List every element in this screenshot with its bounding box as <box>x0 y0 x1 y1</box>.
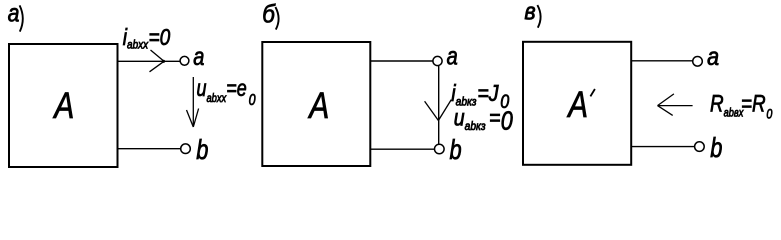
label b (terminal b, fig b) <box>450 134 462 165</box>
label А inside box A1 <box>53 85 75 127</box>
svg-text:b: b <box>196 134 208 165</box>
label i_abкз = J_0 <box>451 81 509 113</box>
label a (terminal a, fig b) <box>447 42 458 70</box>
label А inside box A2 <box>308 85 330 127</box>
svg-text:a: a <box>707 42 719 70</box>
label b (terminal b, fig c) <box>710 133 722 164</box>
svg-text:А: А <box>566 85 588 126</box>
wire: box A1 to terminal b <box>118 148 181 150</box>
current direction arrow on wire (i=0) <box>150 50 165 72</box>
svg-text:a: a <box>447 42 458 70</box>
label a (terminal a, fig c) <box>707 42 719 70</box>
label a (terminal a, fig a) <box>193 43 204 71</box>
wire: box A3 to terminal b <box>632 146 695 148</box>
terminal a of figure c (circle) <box>693 57 703 67</box>
input-resistance arrow (pointing left into network) <box>658 94 693 116</box>
label b (terminal b, fig a) <box>196 134 208 165</box>
label а) (sub-figure a) <box>8 0 20 27</box>
current arrow on shorting wire (downward) <box>425 100 452 121</box>
svg-text:b: b <box>450 134 462 165</box>
shorting wire between a and b <box>438 66 440 145</box>
svg-text:А: А <box>53 85 75 127</box>
svg-text:b: b <box>710 133 722 164</box>
label б) (sub-figure b) <box>262 0 276 28</box>
svg-text:б: б <box>262 0 276 28</box>
svg-text:a: a <box>193 43 204 71</box>
network box A1 (active two-terminal network, experiment a) <box>9 44 118 167</box>
svg-text:в: в <box>524 0 535 25</box>
wire: box A1 to terminal a <box>118 60 180 62</box>
voltage arrow u (downward) <box>187 77 199 127</box>
terminal b of figure c (circle) <box>695 142 705 152</box>
terminal b of figure a (circle) <box>181 144 191 154</box>
svg-text:Rabвх=R0: Rabвх=R0 <box>710 89 772 122</box>
label u_abхх = e_0 <box>197 76 256 110</box>
label А′ inside box A3 <box>566 85 588 126</box>
network box A2 (active two-terminal network, experiment b) <box>262 42 370 166</box>
label i_abхх = 0 <box>123 25 171 51</box>
svg-text:А: А <box>308 85 330 127</box>
wire: box A2 to terminal a <box>371 60 433 62</box>
label u_abкз = 0 <box>454 105 513 136</box>
svg-text:а: а <box>8 0 20 27</box>
terminal a of figure a (circle) <box>180 56 189 65</box>
terminal a of figure b (circle) <box>433 56 442 65</box>
terminal b of figure b (circle) <box>435 144 445 154</box>
wire: box A3 to terminal a <box>632 60 693 62</box>
label R_abвх = R_0 <box>710 89 772 122</box>
network box A3 (passive two-terminal network A') <box>523 42 631 165</box>
label в) (sub-figure c) <box>524 0 535 25</box>
prime mark of А′ <box>590 89 595 96</box>
wire: box A2 to terminal b <box>371 148 435 150</box>
